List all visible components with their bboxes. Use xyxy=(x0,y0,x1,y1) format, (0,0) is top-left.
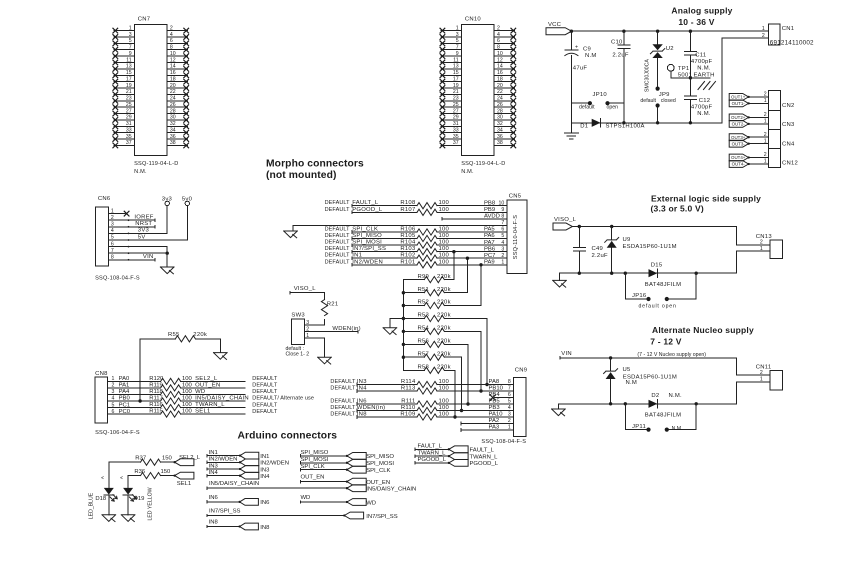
svg-text:VCC: VCC xyxy=(548,22,562,28)
svg-text:External logic side supply: External logic side supply xyxy=(651,194,761,204)
CN7 odd pins 1-37 with no-connect X marks xyxy=(113,25,135,147)
svg-text:IN5/DAISY_CHAIN: IN5/DAISY_CHAIN xyxy=(195,396,249,402)
svg-text:N.M: N.M xyxy=(626,380,638,386)
label DEFAULT WDEN(in) xyxy=(330,405,385,411)
resistor R58 220k xyxy=(417,365,450,374)
label PC7 pin 2 xyxy=(484,253,504,259)
svg-text:A: A xyxy=(119,476,124,479)
value label SSQ-110-04-F-S (CN5) vertical xyxy=(513,215,519,259)
wire: rail to R58 xyxy=(403,369,424,371)
svg-text:21: 21 xyxy=(453,89,459,95)
svg-text:3: 3 xyxy=(508,412,511,418)
svg-text:VISO_L: VISO_L xyxy=(294,286,317,292)
junction dots on 220k rail xyxy=(402,291,405,359)
wire: bottom rail to ground xyxy=(559,273,561,280)
svg-text:IOREF: IOREF xyxy=(134,215,153,221)
svg-text:R52: R52 xyxy=(417,300,429,306)
label DEFAULT IN3 xyxy=(330,379,367,385)
svg-text:26: 26 xyxy=(170,102,176,108)
svg-text:10: 10 xyxy=(499,200,505,206)
label DEFAULT IN1 xyxy=(325,253,363,259)
connector CN12 body xyxy=(769,149,798,168)
svg-text:OUT2+: OUT2+ xyxy=(731,115,746,120)
svg-text:PA7: PA7 xyxy=(484,240,495,246)
wire: R58 to pin row (vertical) xyxy=(453,370,456,418)
svg-text:4: 4 xyxy=(508,405,511,411)
wire: D18 to R37 xyxy=(109,461,141,463)
wire: CN2 pin 2 xyxy=(749,96,769,98)
svg-text:default: default xyxy=(579,105,595,111)
svg-text:36: 36 xyxy=(497,134,503,140)
svg-text:33: 33 xyxy=(126,127,132,133)
power flag 5v0 xyxy=(182,196,193,205)
wire: IN4 xyxy=(207,470,240,477)
svg-text:13: 13 xyxy=(126,64,132,70)
wire: pin6 down to pin7 xyxy=(166,247,168,254)
wire: U2 to JP9 xyxy=(657,58,659,87)
svg-text:PB3: PB3 xyxy=(489,405,501,411)
wire: rail ground tap xyxy=(390,318,404,320)
wire: SW3 pin 3 xyxy=(305,324,325,326)
svg-text:5: 5 xyxy=(508,399,511,405)
diode D2 BAT48JFILM N.M. xyxy=(645,393,682,418)
svg-text:37: 37 xyxy=(453,140,459,146)
wire: R56 to pin row (vertical) xyxy=(466,344,469,405)
svg-text:DEFAULT: DEFAULT xyxy=(330,379,356,385)
wire: CN6 pin 2 IOREF xyxy=(108,215,155,222)
svg-text:150: 150 xyxy=(161,469,172,475)
wire: CN5 pin 7 to ground xyxy=(293,224,507,226)
wire: CN6 pin 4 3V3 xyxy=(108,228,167,234)
wire: IN7/SPI_SS to R103 xyxy=(352,250,417,253)
resistor R108 100 xyxy=(400,200,449,209)
svg-text:PA10: PA10 xyxy=(489,412,504,418)
label pin 5 PC1 xyxy=(112,402,131,408)
net flag OUT2- xyxy=(729,121,750,128)
svg-text:D1: D1 xyxy=(580,123,588,129)
wire: R51 to pin row (vertical) xyxy=(466,257,469,293)
wire: SPI_CLK to R106 xyxy=(352,231,417,234)
resistor R103 100 xyxy=(400,246,449,255)
svg-text:4: 4 xyxy=(501,240,504,246)
label SW3 default: Close 1-2 xyxy=(286,346,310,357)
svg-text:2: 2 xyxy=(497,25,500,31)
svg-text:IN2/WDEN: IN2/WDEN xyxy=(260,461,289,467)
svg-text:WDEN(in): WDEN(in) xyxy=(332,326,361,332)
label pin 1 PA0 xyxy=(112,376,131,382)
value label SSQ-119-04-L-D (CN10) xyxy=(461,161,505,167)
wire: R105 to CN5 pin 5 xyxy=(437,238,507,240)
svg-text:29: 29 xyxy=(453,115,459,121)
resistor R111 100 xyxy=(401,399,449,408)
wire: SPI_CLK xyxy=(301,464,347,471)
ground arrow (CN6) xyxy=(160,267,174,274)
svg-text:PA6: PA6 xyxy=(484,233,495,239)
resistor R54 220k xyxy=(417,326,450,335)
resistor R36 150 xyxy=(134,469,171,479)
TVS diode U2 SMC30J00CA xyxy=(645,44,674,92)
svg-text:DEFAULT: DEFAULT xyxy=(252,389,278,395)
label PB6 pin 3 xyxy=(484,246,504,252)
resistor R116 100 xyxy=(149,402,192,411)
resistor R118 100 xyxy=(149,389,192,398)
ground arrow (D18) xyxy=(102,515,116,522)
wire: JP16 left leg xyxy=(625,273,646,299)
svg-text:R57: R57 xyxy=(417,351,429,357)
svg-text:OUT_EN: OUT_EN xyxy=(301,475,325,481)
resistor R120 100 xyxy=(149,376,192,385)
svg-text:2: 2 xyxy=(508,418,511,424)
wire: Nucleo bottom rail xyxy=(558,403,736,405)
value label SSQ-119-04-L-D (CN7) xyxy=(134,161,178,167)
title: 7 - 12 V xyxy=(650,336,681,346)
resistor R102 100 xyxy=(400,253,449,262)
svg-text:19: 19 xyxy=(126,83,132,89)
label PA10 pin 3 xyxy=(489,412,511,418)
junction dots on bottom rail xyxy=(622,121,692,124)
wire: TWARN_L xyxy=(415,450,449,457)
diode D1 STPS1H100A xyxy=(580,119,644,130)
label PA8 pin 8 xyxy=(489,379,511,385)
svg-text:3v3: 3v3 xyxy=(162,196,173,202)
svg-text:38: 38 xyxy=(170,140,176,146)
svg-text:31: 31 xyxy=(126,121,132,127)
wire: CN13 pin 1 xyxy=(737,251,770,273)
svg-text:2.2uF: 2.2uF xyxy=(592,253,608,259)
connector CN4 body xyxy=(769,129,795,148)
svg-text:OUT3-: OUT3- xyxy=(732,141,746,146)
wire: WDEN(in) to R110 xyxy=(357,409,417,412)
wire: C12 to bottom rail xyxy=(689,99,691,122)
svg-text:25: 25 xyxy=(126,102,132,108)
junction dots on VISO rail xyxy=(578,225,614,228)
svg-text:IN6: IN6 xyxy=(209,495,219,501)
svg-text:15: 15 xyxy=(126,70,132,76)
pin label A (D18) xyxy=(100,476,105,479)
svg-text:PC7: PC7 xyxy=(484,253,495,259)
wire: U5 to bottom rail xyxy=(610,379,612,404)
svg-text:R102: R102 xyxy=(400,253,415,259)
svg-text:10: 10 xyxy=(497,51,503,57)
svg-text:DEFAULT: DEFAULT xyxy=(325,200,351,206)
capacitor C49 2.2uF xyxy=(573,246,608,259)
net flag SEL1 xyxy=(173,472,193,487)
svg-text:DEFAULT: DEFAULT xyxy=(325,240,351,246)
label DEFAULT SPI_MOSI xyxy=(325,240,383,246)
wire: IN3 to R114 xyxy=(357,383,417,386)
wire: R120 SEL2_L xyxy=(181,376,245,382)
svg-text:R105: R105 xyxy=(400,233,416,239)
svg-text:U9: U9 xyxy=(623,237,631,243)
wire: top rail to C10 xyxy=(623,31,625,45)
svg-text:TWARN_L: TWARN_L xyxy=(418,450,447,456)
net flag FAULT_L xyxy=(448,446,495,454)
label DEFAULT IN7/SPI_SS xyxy=(325,246,387,252)
wire: down to stack ground xyxy=(389,319,391,328)
svg-text:1: 1 xyxy=(508,425,511,431)
svg-text:AVDD: AVDD xyxy=(484,214,500,220)
svg-text:IN5/DAISY_CHAIN: IN5/DAISY_CHAIN xyxy=(366,487,416,493)
resistor R52 220k xyxy=(417,300,450,309)
svg-text:220k: 220k xyxy=(437,339,451,345)
svg-text:SEL1: SEL1 xyxy=(177,481,191,487)
svg-text:31: 31 xyxy=(453,121,459,127)
label DEFAULT xyxy=(252,389,278,395)
svg-text:JP16: JP16 xyxy=(632,293,647,299)
svg-text:23: 23 xyxy=(126,96,132,102)
svg-text:R21: R21 xyxy=(327,302,339,308)
CN7 even pins 2-38 with no-connect X marks xyxy=(167,25,189,147)
ESD diode U9 ESDA15P60-1U1M xyxy=(605,237,677,250)
wire: CN4 pin 2 xyxy=(749,136,769,138)
label DEFAULT xyxy=(252,376,278,382)
wire: R106 to CN5 pin 6 xyxy=(437,231,507,233)
svg-text:7: 7 xyxy=(508,386,511,392)
svg-text:5v0: 5v0 xyxy=(182,196,193,202)
svg-text:6: 6 xyxy=(497,38,500,44)
svg-text:37: 37 xyxy=(126,140,132,146)
wire: VISO top rail xyxy=(572,226,736,228)
svg-text:5: 5 xyxy=(501,233,504,239)
svg-text:17: 17 xyxy=(126,76,132,82)
wire: rail to R51 xyxy=(403,292,424,294)
svg-text:U5: U5 xyxy=(623,367,632,373)
svg-text:Morpho connectors: Morpho connectors xyxy=(266,158,364,169)
wire: rail to R54 xyxy=(403,330,424,332)
net flag TWARN_L xyxy=(448,453,499,461)
svg-text:35: 35 xyxy=(453,134,459,140)
earth ground symbol xyxy=(698,82,716,90)
wire: D19 to R36 xyxy=(128,475,140,477)
svg-text:18: 18 xyxy=(497,76,503,82)
svg-text:IN7/SPI_SS: IN7/SPI_SS xyxy=(209,509,241,515)
wire: 5V up to 5v0 supply xyxy=(186,206,188,240)
svg-text:8: 8 xyxy=(497,45,500,51)
wire: CN3 pin 1 xyxy=(749,123,769,125)
svg-text:32: 32 xyxy=(497,121,503,127)
svg-text:R103: R103 xyxy=(400,246,416,252)
svg-text:220k: 220k xyxy=(437,365,451,371)
label DEFAULT xyxy=(252,409,278,415)
svg-text:R119: R119 xyxy=(149,382,163,388)
svg-text:N.M.: N.M. xyxy=(697,111,711,117)
wire: R109 to CN9 pin 3 xyxy=(437,416,514,418)
svg-text:150: 150 xyxy=(162,455,173,461)
connector CN2 body xyxy=(769,90,795,110)
wire: CN6 pin 6 GND xyxy=(108,246,167,248)
wire: top rail to C11 xyxy=(689,31,691,51)
CN13 pin numbers xyxy=(760,240,763,252)
wire: IN5/DAISY_CHAIN xyxy=(207,481,347,489)
svg-text:OUT1+: OUT1+ xyxy=(731,95,746,100)
svg-text:R58: R58 xyxy=(417,365,429,371)
wire: R111 to CN9 pin 5 xyxy=(437,403,514,405)
svg-text:N.M.: N.M. xyxy=(461,169,474,175)
svg-text:SSQ-108-04-F-S: SSQ-108-04-F-S xyxy=(481,439,526,445)
svg-text:R113: R113 xyxy=(401,386,416,392)
svg-text:OUT4+: OUT4+ xyxy=(731,155,746,160)
svg-text:29: 29 xyxy=(126,115,132,121)
svg-text:3V3: 3V3 xyxy=(138,228,150,234)
wire: to R55 xyxy=(140,338,175,340)
svg-text:Close 1- 2: Close 1- 2 xyxy=(286,351,310,357)
wire: CN12 pin 1 xyxy=(749,163,769,165)
svg-text:35: 35 xyxy=(126,134,132,140)
svg-text:1: 1 xyxy=(501,260,504,266)
wire: R57 to pin row (vertical) xyxy=(460,357,463,412)
svg-text:C10: C10 xyxy=(611,39,623,45)
wire: R99 right xyxy=(444,279,454,281)
svg-text:28: 28 xyxy=(170,108,176,114)
svg-text:JP11: JP11 xyxy=(632,424,646,430)
wire: JP16 right leg xyxy=(669,273,696,299)
svg-text:TWARN_L: TWARN_L xyxy=(470,454,499,460)
svg-text:27: 27 xyxy=(126,108,132,114)
svg-text:default open: default open xyxy=(639,303,677,309)
svg-text:CN8: CN8 xyxy=(95,371,108,377)
wire: CN8 pin 4 up to R55 xyxy=(138,339,141,403)
svg-text:R51: R51 xyxy=(417,287,429,293)
svg-text:SPI_MOSI: SPI_MOSI xyxy=(301,457,329,463)
junction dot on VIN rail xyxy=(609,356,612,359)
svg-text:R116: R116 xyxy=(149,402,163,408)
svg-text:IN8: IN8 xyxy=(209,520,219,526)
label pin 7 xyxy=(501,220,504,226)
net flag IN3 (arrow) xyxy=(239,466,259,473)
ground arrow (SW3) xyxy=(318,357,332,364)
svg-text:FAULT_L: FAULT_L xyxy=(470,448,495,454)
wire: CN5 pin 8 AVDD xyxy=(442,214,507,221)
wire: IN4 to R113 xyxy=(357,390,417,393)
wire: CN6 pin 8 VIN xyxy=(108,254,154,261)
wire: CN11 pin 1 xyxy=(737,382,770,404)
svg-text:SSQ-119-04-L-D: SSQ-119-04-L-D xyxy=(461,161,505,167)
wire: IN8 to R109 xyxy=(357,416,417,419)
svg-text:16: 16 xyxy=(170,70,176,76)
wire: SW3 pin 1 to ground xyxy=(324,338,326,357)
svg-text:IN4: IN4 xyxy=(260,474,270,480)
wire: R52 right xyxy=(444,305,481,307)
svg-text:220k: 220k xyxy=(437,274,451,280)
label DEFAULT IN6 xyxy=(330,399,367,405)
svg-text:DEFAULT: DEFAULT xyxy=(325,227,351,233)
svg-text:R120: R120 xyxy=(149,376,164,382)
wire: IN8 xyxy=(207,520,240,528)
ground xyxy=(564,133,578,139)
svg-text:DEFAULT: DEFAULT xyxy=(325,259,351,265)
svg-text:Analog supply: Analog supply xyxy=(671,5,732,15)
svg-text:IN2/WDEN: IN2/WDEN xyxy=(209,457,238,463)
svg-text:DEFAULT: DEFAULT xyxy=(325,207,351,213)
title: Alternate Nucleo supply xyxy=(652,325,754,335)
svg-text:IN7/SPI_SS: IN7/SPI_SS xyxy=(366,514,398,520)
svg-text:OUT1-: OUT1- xyxy=(732,101,746,106)
svg-text:3: 3 xyxy=(501,246,504,252)
svg-text:R106: R106 xyxy=(400,227,416,233)
resistor R113 100 xyxy=(401,386,450,395)
LED D18 (blue) xyxy=(89,462,118,519)
wire: PGOOD_L to R107 xyxy=(352,211,417,214)
wire: R101 to CN5 pin 1 xyxy=(437,264,507,266)
ground arrow (VIN) xyxy=(552,409,566,416)
connector CN7 body xyxy=(135,24,167,155)
svg-text:4700pF: 4700pF xyxy=(691,105,713,111)
svg-text:FAULT_L: FAULT_L xyxy=(418,444,443,450)
svg-text:12: 12 xyxy=(170,57,176,63)
wire: CN4 pin 1 xyxy=(749,143,769,145)
svg-text:7 - 12 V: 7 - 12 V xyxy=(650,336,681,346)
svg-text:IN3: IN3 xyxy=(260,467,270,473)
svg-text:4700pF: 4700pF xyxy=(691,59,713,65)
svg-text:C9: C9 xyxy=(583,46,591,52)
wire: CN8 pin 3 to R118 xyxy=(108,394,161,396)
diode D15 BAT48JFILM xyxy=(645,262,681,287)
svg-text:12: 12 xyxy=(497,57,503,63)
label CN10 xyxy=(465,17,482,23)
net flag OUT1+ xyxy=(729,94,750,101)
wire: R115 SEL1 xyxy=(181,409,245,415)
svg-text:25: 25 xyxy=(453,102,459,108)
svg-text:PB9: PB9 xyxy=(484,207,495,213)
svg-text:21: 21 xyxy=(126,89,132,95)
CN6 pin 1 no-connect xyxy=(108,211,129,216)
svg-text:9: 9 xyxy=(501,207,504,213)
wire: 3V3 up to 3v3 supply xyxy=(166,206,168,234)
svg-text:SPI_MOSI: SPI_MOSI xyxy=(366,461,394,467)
svg-text:STPS1H100A: STPS1H100A xyxy=(606,123,645,129)
ground arrow (R55) xyxy=(214,353,228,360)
svg-text:SPI_CLK: SPI_CLK xyxy=(301,464,325,470)
wire: R58 right xyxy=(444,369,455,371)
resistor R21 xyxy=(321,300,338,316)
svg-text:PA9: PA9 xyxy=(484,260,495,266)
svg-text:Alternate Nucleo supply: Alternate Nucleo supply xyxy=(652,325,754,335)
svg-text:PA5: PA5 xyxy=(484,227,495,233)
label PB3 pin 4 xyxy=(489,405,511,411)
svg-text:11: 11 xyxy=(126,57,131,63)
ground arrow (VISO) xyxy=(553,280,567,287)
svg-text:A: A xyxy=(100,476,105,479)
label DEFAULT IN8 xyxy=(330,412,367,418)
label N.M. (CN7) xyxy=(134,169,147,175)
svg-text:R110: R110 xyxy=(401,405,416,411)
value label SSQ-106-04-F-S (CN8) xyxy=(95,430,140,436)
capacitor C12 4700pF N.M. xyxy=(684,96,712,117)
svg-text:PB6: PB6 xyxy=(484,246,496,252)
svg-text:220k: 220k xyxy=(437,300,451,306)
label PB8 pin 10 xyxy=(484,200,504,206)
wire: CN9 pin 2 PA2 xyxy=(461,418,513,425)
svg-text:10 - 36 V: 10 - 36 V xyxy=(678,17,714,27)
wire: U9 to bottom rail xyxy=(611,248,613,273)
wire: R99 to pin row (vertical) xyxy=(452,250,455,280)
resistor R56 220k xyxy=(417,339,450,348)
wire: R110 to CN9 pin 4 xyxy=(437,410,514,412)
wire: CN8 pin 1 to R120 xyxy=(108,380,161,382)
title: Morpho connectors xyxy=(266,158,364,169)
svg-text:TWARN_L: TWARN_L xyxy=(195,402,225,408)
net flag SPI_MOSI xyxy=(346,459,395,467)
svg-text:7: 7 xyxy=(456,45,459,51)
label PA9 pin 1 xyxy=(484,260,504,266)
svg-text:6: 6 xyxy=(170,38,173,44)
svg-text:ESDA15P60-1U1M: ESDA15P60-1U1M xyxy=(623,244,677,250)
wire: R51 right xyxy=(444,292,467,294)
svg-text:WD: WD xyxy=(366,500,376,506)
svg-text:DEFAULT: DEFAULT xyxy=(325,253,351,259)
wire: R55 to ground xyxy=(195,338,220,340)
svg-text:DEFAULT: DEFAULT xyxy=(330,386,356,392)
